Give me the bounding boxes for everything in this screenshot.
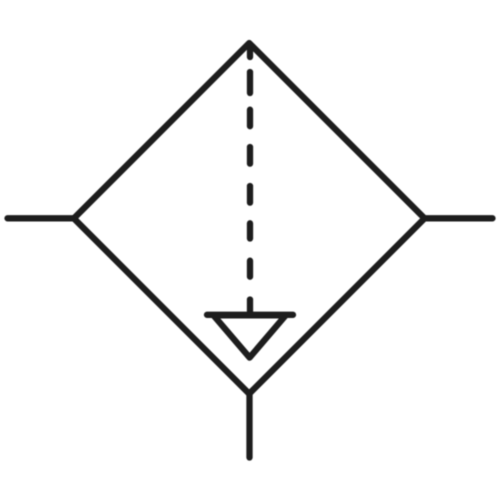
- drain collector bar: [207, 312, 293, 318]
- condensate flow path (dashed center line): [247, 50, 253, 315]
- filter body F1 (diamond): [74, 43, 425, 394]
- water separator funnel (inverted triangle): [214, 315, 286, 357]
- wire: right port lead: [425, 215, 493, 221]
- wire: bottom drain lead: [246, 394, 252, 458]
- wire: left port lead: [8, 215, 74, 221]
